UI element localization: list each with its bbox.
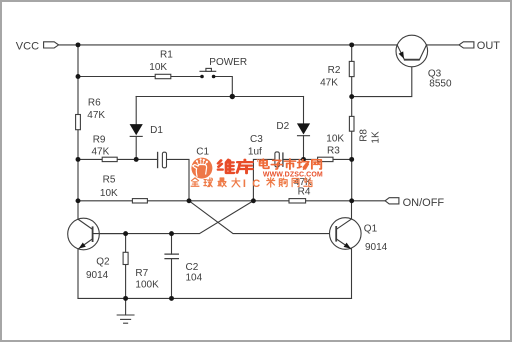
wire switch to D rail [214,77,233,97]
watermark logo circle [191,158,212,179]
svg-text:10K: 10K [326,134,344,145]
node D2 cathode junction [301,157,306,162]
svg-text:9014: 9014 [365,242,388,253]
resistor R1 [155,74,171,78]
wire R2 bottom leg [351,77,353,97]
svg-text:1K: 1K [370,131,381,144]
transistor Q2 [68,218,126,250]
resistor R2 [349,61,354,76]
node A junction [187,198,192,203]
node C2 top junction [169,231,174,236]
resistor R5 [132,199,147,203]
node R7 bottom junction [123,296,128,301]
wire C2 top leg [171,234,173,255]
resistor R8 [349,116,354,131]
ON/OFF port tag [385,198,399,204]
wire D1 anode drop [135,97,137,125]
resistor R9 [102,157,117,161]
svg-text:8550: 8550 [429,78,452,89]
wire cross diagonal B to Q2 base [93,201,254,234]
wire R8 bottom leg [351,131,353,159]
WATERMARK [191,158,323,190]
wire cross diagonal A to Q1 base [189,201,336,234]
wire bottom rail [78,297,352,299]
wire left vertical rail lower [77,130,79,220]
svg-text:10K: 10K [100,188,118,199]
diode D2 [297,123,310,135]
wire R7 bottom leg [125,265,127,299]
wire top VCC rail [59,44,398,46]
capacitor C3 [275,152,283,167]
node R2 top junction [349,42,354,47]
svg-text:I: I [243,178,246,190]
transistor Q1 [330,218,362,250]
ground [117,298,134,323]
svg-text:R4: R4 [298,187,311,198]
svg-text:WWW.DZSC.COM: WWW.DZSC.COM [263,172,323,179]
svg-text:Q1: Q1 [364,223,378,234]
wire R2 top leg [351,45,353,62]
node R1 rail junction [76,74,81,79]
wire D2 cathode drop [303,136,305,160]
wire C2 bottom leg [171,259,173,299]
resistor R7 [123,252,128,264]
wire D2 anode drop [303,97,305,124]
resistor R6 [76,115,81,130]
svg-text:1uf: 1uf [248,147,262,158]
svg-text:D2: D2 [276,121,289,132]
wire R1 feed rail [78,76,202,78]
wire Q2 emitter down [77,249,79,298]
capacitor C1 [158,152,167,168]
wire D rail horizontal [136,96,303,98]
switch POWER stem [206,68,212,71]
node B junction [251,198,256,203]
watermark text 维 [218,160,234,173]
svg-text:10K: 10K [149,62,167,73]
node R7 top junction [123,231,128,236]
svg-text:ON/OFF: ON/OFF [403,197,445,209]
node R3 right junction [349,157,354,162]
svg-text:R8: R8 [358,129,369,142]
svg-text:47K: 47K [320,77,338,88]
switch POWER left terminal [200,75,204,79]
svg-text:R7: R7 [135,268,148,279]
VCC port tag [44,42,59,48]
node R5 left junction [76,198,81,203]
resistor R4 [289,199,306,203]
switch POWER right terminal [212,75,216,79]
node C2 bottom junction [169,296,174,301]
svg-text:47K: 47K [92,146,110,157]
watermark text 子 [271,160,282,169]
svg-text:C3: C3 [250,134,263,145]
svg-text:47K: 47K [87,110,105,121]
svg-text:R6: R6 [88,98,101,109]
diode D1 [130,124,143,136]
svg-text:Q2: Q2 [96,256,110,267]
watermark text 场 [298,160,309,169]
svg-text:POWER: POWER [209,57,247,68]
node R2 bottom junction [349,94,354,99]
wire Q1 emitter down [351,249,353,298]
watermark text 站 [304,178,312,187]
resistor R3 [318,157,333,161]
svg-text:100K: 100K [135,280,159,291]
node R9 left junction [76,157,81,162]
switch POWER button bar [200,70,216,72]
watermark text 全 [191,178,199,186]
node D1 cathode junction [134,157,139,162]
wire D1 cathode drop [135,136,137,159]
svg-text:C: C [252,178,260,190]
wire lower rail [78,200,385,202]
watermark text 球 [204,178,213,187]
svg-text:VCC: VCC [16,41,39,53]
wire Q3 base run [352,60,412,97]
svg-text:R2: R2 [328,65,341,76]
wire left vertical rail upper [77,45,79,115]
svg-text:R3: R3 [327,145,340,156]
capacitor C2 [164,254,179,259]
wire right rail to Q1 collector [351,159,353,219]
svg-text:C1: C1 [196,147,209,158]
wire Q3 collector to OUT [427,44,460,46]
wire R7 top leg [125,234,127,253]
svg-text:OUT: OUT [477,40,501,52]
watermark text 采 [267,178,275,187]
watermark text 大 [232,178,240,187]
watermark text 市 [285,159,296,169]
svg-text:C2: C2 [186,262,199,273]
wire R8 top leg [351,97,353,117]
watermark text 网 [292,178,299,186]
watermark text 最 [218,178,226,187]
watermark text 电 [260,159,269,168]
svg-text:R1: R1 [160,50,173,61]
watermark text 网 [312,160,321,169]
svg-text:D1: D1 [150,125,163,136]
wire C3 left leg [253,159,275,200]
svg-text:104: 104 [186,272,203,283]
OUT port tag [459,42,474,48]
node ON/OFF junction [349,198,354,203]
node VCC rail junction [76,42,81,47]
wire mid rail left [78,159,189,200]
node POWER junction [230,94,235,99]
transistor Q3 [396,35,428,67]
svg-text:9014: 9014 [86,270,109,281]
wire C3 to D2 node [283,158,304,160]
watermark text 购 [279,178,287,186]
svg-text:R9: R9 [93,135,106,146]
svg-text:R5: R5 [103,174,116,185]
wire D2 node to R3 [304,158,352,160]
watermark text 库 [237,160,252,173]
